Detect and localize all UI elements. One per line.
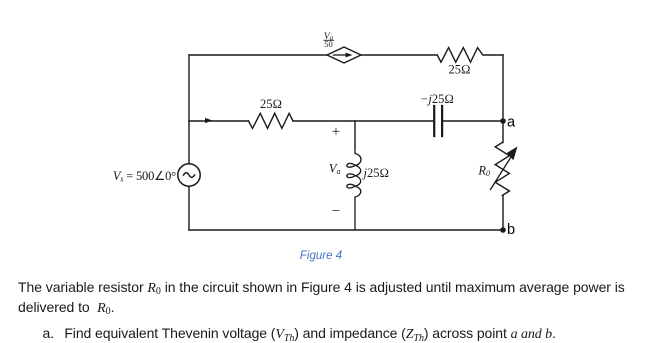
svg-text:25Ω: 25Ω — [448, 62, 470, 76]
svg-text:Va: Va — [329, 162, 341, 177]
svg-text:R0: R0 — [477, 164, 490, 179]
svg-text:b: b — [507, 222, 515, 238]
svg-text:a: a — [507, 114, 516, 130]
svg-text:25Ω: 25Ω — [260, 97, 282, 111]
svg-text:+: + — [332, 124, 340, 140]
svg-text:j25Ω: j25Ω — [362, 166, 390, 180]
svg-text:−j25Ω: −j25Ω — [420, 92, 454, 106]
svg-text:−: − — [332, 204, 340, 220]
svg-text:Vs = 500∠0°: Vs = 500∠0° — [113, 169, 176, 184]
